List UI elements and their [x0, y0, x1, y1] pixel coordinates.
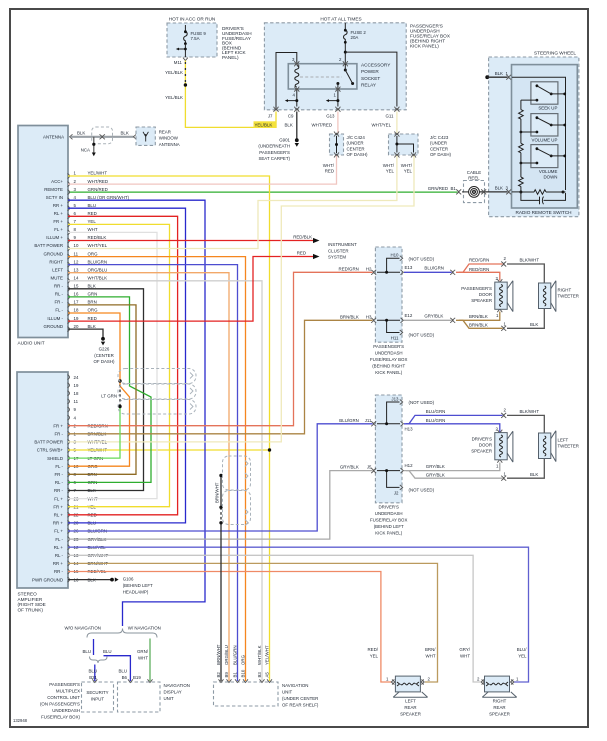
svg-text:J/C C423: J/C C423: [430, 135, 449, 140]
svg-text:WHT: WHT: [426, 653, 436, 658]
svg-text:GRY/BLK: GRY/BLK: [424, 313, 443, 318]
svg-text:20A: 20A: [351, 35, 359, 40]
svg-text:(CENTER: (CENTER: [94, 353, 114, 358]
svg-text:B1: B1: [232, 672, 237, 678]
svg-text:RR -: RR -: [54, 488, 64, 493]
svg-text:SEEK UP: SEEK UP: [538, 105, 557, 110]
svg-text:DOOR: DOOR: [479, 443, 492, 448]
svg-text:WHT/RED: WHT/RED: [312, 122, 333, 127]
svg-text:CTRL SW/B+: CTRL SW/B+: [37, 448, 64, 453]
svg-text:RR +: RR +: [53, 561, 64, 566]
svg-text:A5: A5: [264, 672, 269, 678]
svg-text:(NOT USED): (NOT USED): [409, 333, 435, 338]
wire WHT/YEL pin10 to C423: [68, 156, 397, 249]
svg-text:BLU: BLU: [118, 668, 127, 673]
signal names: [34, 179, 63, 329]
wire YEL pin7 to amp21: [68, 224, 170, 506]
svg-text:RL +: RL +: [54, 211, 64, 216]
svg-text:15: 15: [74, 284, 79, 289]
svg-text:YEL: YEL: [386, 168, 395, 173]
driver's underdash fuse/relay box (pass-through): [375, 395, 402, 503]
svg-text:DRIVER'S: DRIVER'S: [379, 505, 399, 510]
svg-text:WHT/: WHT/: [401, 163, 413, 168]
wire ORG pin18 to amp10: [68, 313, 130, 466]
svg-text:UNIT: UNIT: [282, 690, 293, 695]
svg-text:REEL: REEL: [468, 176, 480, 181]
svg-text:ACCESSORY: ACCESSORY: [361, 62, 391, 67]
wire WHT/RED G13 to C424: [337, 112, 339, 135]
svg-text:BATT POWER: BATT POWER: [34, 440, 63, 445]
svg-text:DOWN: DOWN: [543, 175, 557, 180]
svg-text:VOLUME: VOLUME: [539, 169, 558, 174]
wire BLK pin16 to ground G106: [68, 579, 111, 581]
svg-text:11: 11: [74, 399, 79, 404]
svg-text:OF TRUNK): OF TRUNK): [18, 608, 44, 613]
connector M11: [183, 58, 188, 61]
inline connector rings (nav harness): [223, 456, 251, 525]
svg-text:(BEHIND LEFT: (BEHIND LEFT: [123, 583, 153, 588]
svg-text:AUDIO UNIT: AUDIO UNIT: [18, 341, 45, 346]
stereo amplifier box: [17, 372, 68, 588]
svg-text:FR +: FR +: [53, 504, 63, 509]
svg-text:7.5A: 7.5A: [191, 36, 200, 41]
svg-text:BLK/WHT: BLK/WHT: [520, 409, 540, 414]
svg-text:FR -: FR -: [54, 472, 63, 477]
svg-text:REAR: REAR: [493, 705, 505, 710]
svg-text:SPEAKER: SPEAKER: [489, 711, 510, 716]
svg-text:BLK: BLK: [530, 322, 538, 327]
wire RED/YEL amp15 to left rear speaker: [68, 572, 391, 683]
svg-text:BLU: BLU: [82, 649, 91, 654]
wire GRY/BLK to driver's door speaker pin1: [404, 463, 500, 471]
amp pin connectors: [68, 375, 70, 582]
svg-text:B21: B21: [89, 675, 97, 680]
wire BLU pin5 to amp20: [68, 208, 186, 523]
wire RED pin19 to instrument cluster: [68, 257, 313, 322]
svg-text:BLK: BLK: [88, 324, 96, 329]
pin numbers: [74, 171, 79, 329]
relay switch: [343, 61, 348, 66]
svg-text:BLU: BLU: [88, 668, 97, 673]
svg-text:18: 18: [74, 391, 79, 396]
svg-text:G901: G901: [279, 138, 290, 143]
svg-text:WHT/: WHT/: [383, 163, 395, 168]
radio remote switch box: [512, 65, 578, 208]
svg-text:SEAT CARPET): SEAT CARPET): [258, 156, 290, 161]
fuse FUSE 9 7.5A: [184, 25, 188, 44]
wire BLK 1 into switch: [485, 75, 489, 79]
wire GRY/BLK amp25 to J5: [68, 471, 373, 539]
svg-text:PASSENGER'S: PASSENGER'S: [373, 344, 404, 349]
inline connector rings (audio-amp harness): [118, 369, 196, 415]
wire LT GRN amp17 shield: [68, 407, 120, 459]
svg-text:(ON PASSENGER'S: (ON PASSENGER'S: [40, 702, 80, 707]
svg-text:H13: H13: [405, 427, 414, 432]
amp pin numbers: [74, 375, 79, 583]
svg-text:CONTROL UNIT: CONTROL UNIT: [47, 695, 80, 700]
svg-text:B10: B10: [240, 669, 245, 677]
svg-text:UNDERDASH: UNDERDASH: [375, 511, 403, 516]
svg-text:H10: H10: [390, 253, 399, 258]
svg-text:H3: H3: [366, 314, 372, 319]
svg-text:WHT/BLK: WHT/BLK: [257, 645, 262, 665]
svg-text:BRN/WHT: BRN/WHT: [215, 482, 220, 503]
svg-text:SPEAKER: SPEAKER: [400, 711, 421, 716]
wire WHT/YEL amp3 to C423: [68, 156, 414, 442]
switch VOLUME DOWN: [531, 145, 558, 168]
svg-text:SECURITY: SECURITY: [86, 690, 108, 695]
svg-text:J7: J7: [268, 114, 273, 119]
svg-text:BLU/GRN: BLU/GRN: [426, 418, 446, 423]
svg-text:PWR GROUND: PWR GROUND: [32, 577, 63, 582]
svg-text:RED: RED: [88, 211, 97, 216]
svg-text:RED: RED: [325, 168, 334, 173]
svg-text:18: 18: [74, 308, 79, 313]
svg-text:10: 10: [74, 243, 79, 248]
internal branch to J3 (not used): [377, 402, 400, 424]
svg-text:LEFT: LEFT: [405, 699, 416, 704]
svg-text:NCA: NCA: [81, 147, 90, 152]
svg-text:WHT: WHT: [88, 227, 98, 232]
relay mechanical dashed link: [300, 76, 342, 78]
ground G901: [295, 138, 299, 142]
svg-text:LEFT: LEFT: [52, 267, 63, 272]
wire GRN/RED audio pin3 to cable reel B1: [68, 191, 458, 193]
wire BLK C9 to G901: [296, 112, 298, 140]
svg-text:OF DASH): OF DASH): [94, 359, 116, 364]
svg-text:FR +: FR +: [53, 423, 63, 428]
svg-text:RL -: RL -: [55, 292, 64, 297]
svg-text:SHIELD: SHIELD: [47, 456, 63, 461]
svg-text:BRN/WHT: BRN/WHT: [216, 644, 221, 665]
junction connector J/C C424: [330, 134, 344, 155]
wire BLU to security input B21: [94, 665, 96, 682]
wire RED/BLK pin9 to instrument cluster: [68, 240, 313, 242]
svg-text:14: 14: [74, 276, 79, 281]
wire BLK/WHT to left tweeter pin2: [507, 415, 544, 433]
svg-text:H12: H12: [405, 463, 414, 468]
svg-text:RED/: RED/: [368, 647, 379, 652]
svg-text:11: 11: [74, 251, 79, 256]
svg-text:BLK: BLK: [495, 71, 503, 76]
merge brace: [90, 657, 108, 664]
svg-text:ORG: ORG: [88, 308, 99, 313]
internal branch to H11 (not used): [377, 320, 400, 332]
svg-text:YEL: YEL: [404, 168, 413, 173]
wire label YEL/BLK highlighted: [254, 121, 277, 128]
svg-text:B9: B9: [224, 672, 229, 678]
svg-text:(NOT USED): (NOT USED): [409, 400, 435, 405]
wire ORG pin11 to nav B10: [68, 257, 246, 681]
connector H12: [401, 468, 404, 473]
svg-text:YEL: YEL: [518, 653, 527, 658]
svg-text:WHT: WHT: [138, 655, 148, 660]
svg-text:CABLE: CABLE: [467, 170, 481, 175]
wire WHT pin8 to amp23: [68, 232, 157, 498]
svg-text:(BEHIND RIGHT: (BEHIND RIGHT: [372, 364, 405, 369]
svg-text:12: 12: [74, 259, 79, 264]
svg-text:FL +: FL +: [54, 529, 63, 534]
connector E12: [401, 318, 404, 323]
svg-text:LEFT: LEFT: [558, 437, 569, 442]
svg-text:POWER: POWER: [361, 69, 379, 74]
svg-text:ANTENNA: ANTENNA: [43, 135, 64, 140]
svg-text:FL -: FL -: [55, 537, 63, 542]
svg-text:FR +: FR +: [53, 219, 63, 224]
svg-text:OF DASH): OF DASH): [347, 152, 369, 157]
svg-text:TWEETER: TWEETER: [558, 444, 579, 449]
capacitor C1 branch: [521, 192, 566, 200]
svg-text:RED/GRN: RED/GRN: [469, 258, 489, 263]
svg-text:RADIO REMOTE SWITCH: RADIO REMOTE SWITCH: [516, 210, 572, 215]
audio pin rows: [68, 174, 70, 332]
svg-text:HEADLAMP): HEADLAMP): [123, 589, 149, 594]
svg-text:BLK: BLK: [77, 131, 85, 136]
wire BLK pin15 to amp7: [68, 289, 144, 491]
svg-text:RIGHT: RIGHT: [558, 287, 572, 292]
svg-text:B1: B1: [451, 186, 457, 191]
svg-text:BLK: BLK: [530, 472, 538, 477]
svg-text:B2: B2: [216, 672, 221, 678]
svg-text:J5: J5: [367, 465, 372, 470]
relay coil: [295, 66, 299, 88]
svg-text:PASSENGER'S: PASSENGER'S: [259, 150, 290, 155]
svg-text:J2: J2: [394, 491, 399, 496]
navigation display unit box: [118, 682, 161, 712]
svg-text:SYSTEM: SYSTEM: [328, 255, 346, 260]
svg-text:PASSENGER'S: PASSENGER'S: [461, 286, 492, 291]
svg-text:RED/GRN: RED/GRN: [339, 266, 359, 271]
svg-text:FR -: FR -: [54, 300, 63, 305]
wire BRN/BLK branch to right tweeter: [459, 320, 503, 328]
svg-text:SOCKET: SOCKET: [361, 76, 380, 81]
NCA stub: [93, 137, 95, 154]
svg-text:(BEHIND LEFT: (BEHIND LEFT: [374, 524, 404, 529]
nav wire labels rotated: [216, 644, 269, 677]
amp signal names: [32, 423, 64, 582]
svg-text:BRN/BLK: BRN/BLK: [469, 323, 488, 328]
wire BLU/GRN branch to left tweeter: [406, 415, 503, 423]
svg-text:BRN/: BRN/: [425, 647, 436, 652]
svg-text:RED/GRN: RED/GRN: [469, 267, 489, 272]
svg-text:RELAY: RELAY: [361, 83, 377, 88]
svg-text:RL +: RL +: [54, 513, 64, 518]
svg-text:GRY/BLK: GRY/BLK: [426, 472, 445, 477]
svg-text:REAR: REAR: [404, 705, 416, 710]
wire BLU pin4 SCTY to bottom: [68, 200, 205, 626]
svg-text:RED: RED: [88, 316, 97, 321]
svg-text:ANTENNA: ANTENNA: [159, 142, 180, 147]
wire GRY/BLK E12 to connector: [404, 319, 452, 321]
wire YEL/WHT pin1 to nav A5: [68, 176, 270, 681]
svg-text:ORG: ORG: [88, 251, 99, 256]
svg-text:BATT POWER: BATT POWER: [34, 243, 63, 248]
svg-text:RR +: RR +: [53, 521, 64, 526]
svg-text:FR -: FR -: [54, 432, 63, 437]
svg-text:RIGHT: RIGHT: [493, 699, 507, 704]
svg-text:AMPLIFIER: AMPLIFIER: [18, 597, 43, 602]
svg-text:HOT IN ACC OR RUN: HOT IN ACC OR RUN: [169, 17, 216, 22]
internal branch to H10 (not used): [377, 258, 400, 272]
svg-text:19: 19: [74, 316, 79, 321]
svg-text:KICK PANEL): KICK PANEL): [375, 531, 403, 536]
svg-text:GRY/BLK: GRY/BLK: [426, 464, 445, 469]
wire BLU/GRN pin12 to nav B1: [68, 265, 238, 681]
svg-text:J/C C424: J/C C424: [347, 135, 366, 140]
wire RED/GRN branch to right tweeter: [459, 264, 503, 272]
svg-text:ACC+: ACC+: [51, 179, 63, 184]
inline antenna connector: [92, 127, 113, 144]
wire BLU/YEL amp12 to right rear speaker: [68, 547, 529, 682]
svg-text:WHT: WHT: [460, 653, 470, 658]
svg-text:INSTRUMENT: INSTRUMENT: [328, 242, 357, 247]
navigation unit box: [214, 682, 279, 706]
svg-text:GRN/RED: GRN/RED: [88, 187, 108, 192]
svg-text:NAVIGATION: NAVIGATION: [282, 683, 308, 688]
svg-text:INPUT: INPUT: [91, 696, 104, 701]
wire BRN/BLK amp1 to H3: [68, 320, 373, 434]
svg-text:M11: M11: [174, 60, 183, 65]
wire WHT/YEL G11 to C423: [396, 112, 398, 135]
svg-text:DRIVER'S: DRIVER'S: [472, 436, 492, 441]
svg-text:CENTER: CENTER: [347, 146, 365, 151]
svg-text:BLK: BLK: [495, 186, 503, 191]
svg-text:G226: G226: [99, 347, 110, 352]
wire BRN/BLK to passenger's door speaker pin1: [456, 312, 500, 321]
wire BLK to right tweeter pin1: [507, 309, 544, 329]
svg-text:FL -: FL -: [55, 308, 63, 313]
wire BLK to left tweeter pin1: [507, 459, 544, 479]
svg-text:17: 17: [74, 300, 79, 305]
svg-text:WHT/YEL: WHT/YEL: [372, 122, 392, 127]
svg-text:SPEAKER: SPEAKER: [471, 298, 492, 303]
wire YEL/BLK from M11 to J7: [185, 61, 276, 128]
svg-text:YEL/BLK: YEL/BLK: [255, 122, 273, 127]
svg-text:WHT/BLK: WHT/BLK: [88, 276, 108, 281]
svg-text:GRN/RED: GRN/RED: [428, 186, 448, 191]
svg-text:KICK PANEL): KICK PANEL): [375, 370, 403, 375]
svg-text:BLU (OR GRN/WHT): BLU (OR GRN/WHT): [88, 195, 130, 200]
svg-text:24: 24: [74, 375, 79, 380]
accessory power socket relay U1: [288, 64, 357, 89]
relay pin 4 wire to C9 with tap arrow: [287, 90, 297, 107]
svg-text:WHT/YEL: WHT/YEL: [88, 243, 108, 248]
wire BLU to nav display B6: [104, 656, 131, 681]
svg-text:BLU/GRN: BLU/GRN: [339, 418, 359, 423]
svg-text:STEERING WHEEL: STEERING WHEEL: [534, 51, 576, 56]
svg-text:GROUND: GROUND: [43, 251, 63, 256]
switch VOLUME UP: [531, 114, 558, 136]
passenger's underdash fuse/relay box (top): [264, 23, 406, 110]
svg-text:WINDOW: WINDOW: [159, 136, 179, 141]
svg-text:DISPLAY: DISPLAY: [164, 690, 182, 695]
wire YEL/WHT branch to amp pin5: [68, 449, 270, 451]
svg-text:13: 13: [74, 267, 79, 272]
svg-text:BRN: BRN: [88, 300, 97, 305]
svg-text:GRY/: GRY/: [459, 647, 470, 652]
driver's underdash fuse/relay box (top): [167, 23, 217, 57]
svg-text:RL +: RL +: [54, 545, 64, 550]
svg-text:YEL/BLK: YEL/BLK: [165, 70, 183, 75]
svg-text:PANEL): PANEL): [222, 55, 239, 60]
svg-text:VOLUME UP: VOLUME UP: [532, 137, 558, 142]
svg-text:UNDERDASH: UNDERDASH: [52, 708, 80, 713]
svg-text:W/O NAVIGATION: W/O NAVIGATION: [65, 626, 101, 631]
svg-text:NAVIGATION: NAVIGATION: [164, 683, 190, 688]
svg-text:E12: E12: [405, 313, 413, 318]
svg-text:RR -: RR -: [54, 284, 64, 289]
svg-text:BLU/GRN: BLU/GRN: [424, 265, 444, 270]
wire BLK/WHT to right tweeter pin2: [507, 264, 544, 283]
svg-text:SPEAKER: SPEAKER: [471, 449, 492, 454]
left tweeter: [539, 433, 551, 459]
svg-text:(NOT USED): (NOT USED): [409, 256, 435, 261]
wire ORG/BLU pin13 to nav B9: [68, 273, 229, 681]
wire GRY/WHT amp13 to right rear speaker: [68, 555, 481, 682]
right tweeter: [539, 283, 551, 309]
svg-text:J11: J11: [365, 418, 372, 423]
passenger's underdash fuse/relay box (pass-through): [375, 247, 402, 342]
svg-text:ORG/BLU: ORG/BLU: [224, 645, 229, 665]
svg-text:UNDERDASH: UNDERDASH: [375, 351, 403, 356]
svg-text:OF REAR SHELF): OF REAR SHELF): [282, 703, 319, 708]
svg-text:(UNDER CENTER: (UNDER CENTER: [282, 696, 318, 701]
svg-text:RED/BLK: RED/BLK: [293, 235, 312, 240]
junction connector J/C C423: [389, 134, 419, 155]
connectors J7 C9 G13 G11 on box bottom edge: [274, 107, 279, 112]
svg-text:(RIGHT SIDE: (RIGHT SIDE: [18, 602, 46, 607]
svg-text:RL -: RL -: [55, 480, 64, 485]
wire BLU/GRN to driver's door speaker pin2: [404, 424, 500, 432]
svg-text:WHT/: WHT/: [323, 163, 335, 168]
svg-text:BLU/: BLU/: [517, 647, 528, 652]
svg-text:19: 19: [74, 383, 79, 388]
resistor ladder R1 R2 R3 on left bus: [520, 100, 522, 192]
svg-text:YEL: YEL: [88, 219, 97, 224]
svg-text:FUSE/RELAY BOX: FUSE/RELAY BOX: [370, 518, 407, 523]
svg-text:BLU/GRN: BLU/GRN: [426, 409, 446, 414]
svg-text:RED: RED: [297, 251, 306, 256]
svg-text:GRY/BLK: GRY/BLK: [340, 465, 359, 470]
relay pin 1 wire to G13 with tap arrow: [328, 90, 338, 107]
svg-text:BLU/GRN: BLU/GRN: [88, 259, 108, 264]
wire BLU w/o nav: [93, 639, 95, 655]
svg-text:YEL/WHT: YEL/WHT: [88, 171, 108, 176]
wire BRN pin17 to amp8: [68, 305, 136, 474]
wire RED/GRN to passenger's door speaker pin2: [456, 272, 500, 280]
svg-text:CENTER: CENTER: [430, 146, 448, 151]
wire GRN/WHT to nav display B19: [149, 639, 151, 682]
svg-text:GRN/: GRN/: [137, 649, 149, 654]
svg-text:(UNDER: (UNDER: [347, 141, 364, 146]
svg-text:OF DASH): OF DASH): [430, 152, 452, 157]
svg-text:BLU: BLU: [88, 203, 97, 208]
svg-text:YEL/BLK: YEL/BLK: [165, 95, 183, 100]
svg-text:DOOR: DOOR: [479, 292, 492, 297]
svg-text:B3: B3: [257, 672, 262, 678]
bottom resistor R4: [519, 191, 522, 194]
svg-text:WHT/RED: WHT/RED: [88, 179, 109, 184]
svg-text:(UNDER: (UNDER: [430, 141, 447, 146]
wire BLU/GRN E13 to connector: [404, 271, 452, 273]
svg-text:PASSENGER'S: PASSENGER'S: [49, 682, 80, 687]
svg-text:MUTE: MUTE: [51, 276, 64, 281]
svg-text:RR -: RR -: [54, 569, 64, 574]
audio unit box: [18, 126, 68, 338]
svg-text:RIGHT: RIGHT: [49, 259, 63, 264]
svg-text:BLK: BLK: [121, 131, 129, 136]
svg-text:RL -: RL -: [55, 553, 64, 558]
